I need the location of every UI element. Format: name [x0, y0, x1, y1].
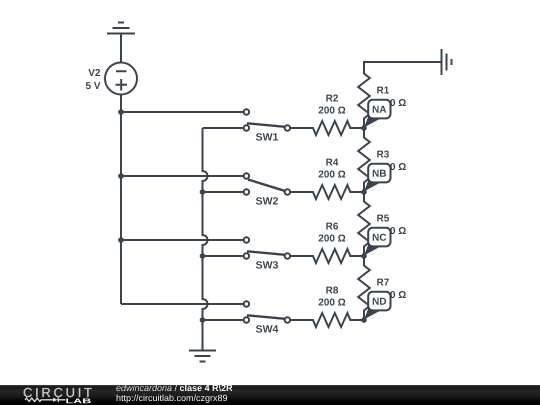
label SW3	[256, 261, 278, 268]
label R3 value 400 Ω	[379, 163, 406, 170]
resistor R1 400 Ohm vertical	[358, 62, 370, 128]
wire ground bus with crossover hops	[203, 128, 208, 320]
resistor R6 200 Ohm horizontal	[290, 249, 364, 263]
CircuitLab logo resistor-diode squiggle	[25, 397, 65, 402]
label R8	[326, 287, 338, 294]
CircuitLab logo CIRCUIT text	[24, 388, 92, 397]
node NC junction	[361, 253, 367, 259]
node ND junction	[361, 317, 367, 323]
wire +5V branch to SW3 top throw	[121, 239, 244, 241]
label R5	[377, 215, 389, 222]
junction ground bus / SW3	[200, 253, 206, 259]
ground bottom (switch common bus)	[189, 320, 216, 362]
junction V2 / SW1 branch	[118, 109, 124, 115]
label R4 value 200 Ω	[319, 171, 346, 178]
wire V2 bottom lead	[120, 95, 122, 113]
node NB junction	[361, 189, 367, 195]
label V2	[88, 69, 100, 76]
resistor R7 400 Ohm vertical	[358, 256, 370, 320]
label R2	[326, 95, 338, 102]
junction +5V bus / SW3 branch	[118, 237, 124, 243]
label R6	[326, 223, 338, 230]
label R7	[377, 279, 389, 286]
ground top (V2 negative terminal)	[107, 23, 135, 63]
voltage source V2	[105, 63, 137, 95]
node NC name tag	[364, 228, 391, 256]
switch SW3 SPDT	[244, 237, 290, 258]
wire +5V branch to SW2 top throw	[121, 175, 244, 177]
switch SW2 SPDT	[244, 173, 290, 194]
node NA name tag	[364, 100, 391, 128]
wire ground branch to SW4 bottom throw	[203, 319, 244, 321]
label V2 value 5 V	[86, 82, 101, 89]
switch SW4 SPDT	[244, 301, 290, 322]
wire +5V branch to SW4 top throw	[121, 303, 244, 305]
label SW4	[256, 325, 278, 332]
wire ladder top to right ground	[364, 62, 442, 64]
label R4	[326, 159, 338, 166]
wire +5V bus	[120, 112, 122, 304]
wire +5V branch to SW1 top throw	[121, 111, 244, 113]
resistor R5 400 Ohm vertical	[358, 192, 370, 256]
wire ground branch to SW2 bottom throw	[203, 191, 244, 193]
ground right (ladder termination)	[442, 49, 452, 75]
switch SW1 SPDT	[244, 109, 290, 130]
junction ground bus / SW4	[200, 317, 206, 323]
resistor R3 400 Ohm vertical	[358, 128, 370, 192]
label R5 value 400 Ω	[379, 227, 406, 234]
label SW1	[256, 133, 278, 140]
label R1	[377, 87, 389, 94]
footer bar background	[0, 385, 540, 405]
wire ground branch to SW3 bottom throw	[203, 255, 244, 257]
footer url text czgrx89	[117, 395, 228, 403]
junction ground bus / SW2	[200, 189, 206, 195]
label R2 value 200 Ω	[319, 107, 346, 114]
label R3	[377, 151, 389, 158]
resistor R2 200 Ohm horizontal	[290, 121, 364, 135]
label R6 value 200 Ω	[319, 235, 346, 242]
label R1 value 400 Ω	[379, 99, 406, 106]
wire ground branch to SW1 bottom throw	[203, 127, 244, 129]
junction +5V bus / SW2 branch	[118, 173, 124, 179]
node NA junction	[361, 125, 367, 131]
footer title: edwincardona / clase 4 R\2R	[116, 385, 232, 392]
node NB name tag	[364, 164, 391, 192]
resistor R4 200 Ohm horizontal	[290, 185, 364, 199]
label R8 value 200 Ω	[319, 299, 346, 306]
CircuitLab logo LAB text	[66, 399, 90, 404]
resistor R8 200 Ohm horizontal	[290, 313, 364, 327]
label SW2	[256, 197, 278, 204]
label R7 value 400 Ω	[379, 291, 406, 298]
node ND name tag	[364, 292, 391, 320]
